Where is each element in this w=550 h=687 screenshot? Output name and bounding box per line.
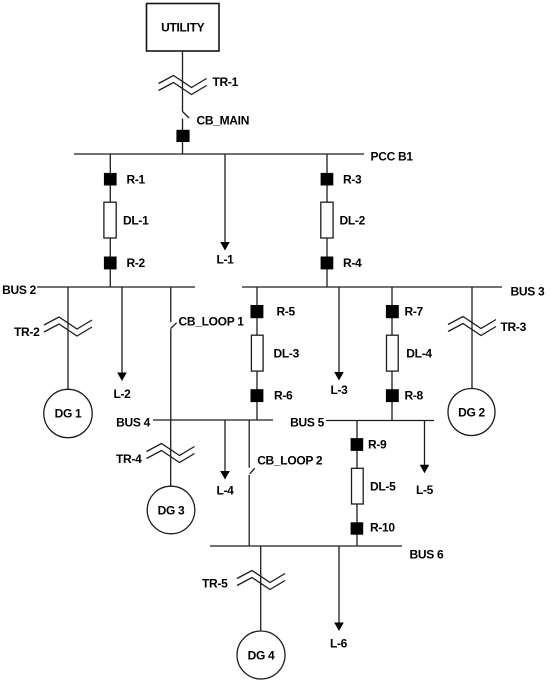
svg-text:DG 1: DG 1 <box>55 407 82 421</box>
svg-text:DG 4: DG 4 <box>248 649 275 663</box>
load L-5 <box>416 421 434 498</box>
svg-text:R-6: R-6 <box>274 389 293 403</box>
wire BUS 4 to DG 3 <box>170 420 172 487</box>
svg-text:R-4: R-4 <box>343 256 362 270</box>
transformer TR-4 <box>116 444 195 467</box>
svg-text:R-1: R-1 <box>127 173 146 187</box>
distribution line DL-1 <box>104 202 149 238</box>
bus BUS 4 <box>116 416 273 430</box>
circuit breaker CB_MAIN <box>176 112 249 155</box>
svg-text:PCC B1: PCC B1 <box>371 150 414 164</box>
svg-text:L-4: L-4 <box>216 484 234 498</box>
bus PCC B1 <box>74 150 413 164</box>
svg-text:TR-3: TR-3 <box>501 320 527 334</box>
svg-text:R-8: R-8 <box>405 389 424 403</box>
bus BUS 3 <box>242 285 545 299</box>
svg-text:L-2: L-2 <box>113 387 131 401</box>
svg-text:DL-1: DL-1 <box>123 214 149 228</box>
svg-text:BUS 3: BUS 3 <box>511 285 545 299</box>
svg-text:R-10: R-10 <box>370 521 395 535</box>
generator DG 2 <box>448 389 495 436</box>
svg-text:L-5: L-5 <box>416 483 434 497</box>
svg-text:BUS 2: BUS 2 <box>2 283 36 297</box>
svg-text:R-9: R-9 <box>368 438 387 452</box>
transformer TR-2 <box>14 317 92 339</box>
wire BUS 3 to BUS 4 (DL-3 feeder) <box>256 287 258 420</box>
relay R-2 <box>104 256 146 270</box>
transformer TR-3 <box>448 317 527 336</box>
svg-text:TR-5: TR-5 <box>202 577 228 591</box>
svg-text:CB_LOOP 2: CB_LOOP 2 <box>257 454 323 468</box>
bus BUS 6 <box>210 546 444 562</box>
svg-text:TR-4: TR-4 <box>116 452 142 466</box>
circuit breaker CB_LOOP 1 <box>171 287 244 420</box>
load L-6 <box>330 546 348 651</box>
svg-text:DL-5: DL-5 <box>370 480 396 494</box>
distribution line DL-5 <box>352 468 397 504</box>
svg-text:R-7: R-7 <box>405 305 424 319</box>
relay R-7 <box>386 305 424 319</box>
load L-2 <box>113 287 131 401</box>
utility box UTILITY <box>147 4 220 52</box>
relay R-1 <box>104 173 146 187</box>
circuit breaker CB_LOOP 2 <box>249 420 323 546</box>
bus BUS 2 <box>2 283 195 297</box>
load L-1 <box>216 154 234 267</box>
svg-text:BUS 5: BUS 5 <box>290 416 324 430</box>
relay R-8 <box>386 389 424 403</box>
relay R-5 <box>251 305 296 319</box>
relay R-3 <box>321 173 362 187</box>
svg-text:DG 3: DG 3 <box>158 504 185 518</box>
svg-text:TR-2: TR-2 <box>14 325 40 339</box>
wire PCC B1 to BUS 3 feeder <box>326 154 328 287</box>
relay R-4 <box>321 256 362 270</box>
svg-text:DL-3: DL-3 <box>274 347 300 361</box>
wire BUS 5 to BUS 6 (DL-5 feeder) <box>356 421 358 547</box>
bus BUS 5 <box>290 416 434 430</box>
svg-text:R-3: R-3 <box>343 173 362 187</box>
svg-text:DG 2: DG 2 <box>458 406 485 420</box>
svg-text:L-1: L-1 <box>216 253 234 267</box>
wire BUS 6 to DG 4 <box>260 546 262 632</box>
distribution line DL-3 <box>251 335 299 371</box>
svg-text:CB_LOOP 1: CB_LOOP 1 <box>179 315 245 329</box>
svg-text:TR-1: TR-1 <box>213 75 239 89</box>
svg-text:R-2: R-2 <box>127 256 146 270</box>
wire BUS 3 to DG 2 <box>471 287 473 389</box>
svg-text:BUS 6: BUS 6 <box>410 548 444 562</box>
relay R-6 <box>251 389 294 403</box>
wire PCC B1 to BUS 2 feeder <box>109 154 111 287</box>
distribution line DL-2 <box>321 202 366 238</box>
load L-3 <box>330 287 348 397</box>
generator DG 4 <box>237 631 285 679</box>
generator DG 1 <box>44 389 92 437</box>
generator DG 3 <box>147 486 195 534</box>
transformer TR-5 <box>202 571 285 591</box>
relay R-10 <box>351 521 396 535</box>
svg-text:DL-4: DL-4 <box>406 347 432 361</box>
svg-text:UTILITY: UTILITY <box>161 20 205 34</box>
transformer TR-1 <box>159 75 239 95</box>
wire utility to TR-1 <box>182 51 184 112</box>
svg-text:CB_MAIN: CB_MAIN <box>197 113 250 127</box>
wire BUS 2 to DG 1 <box>67 287 69 390</box>
relay R-9 <box>351 438 387 452</box>
svg-text:R-5: R-5 <box>277 305 296 319</box>
wire BUS 3 to BUS 5 (DL-4 feeder) <box>391 287 393 421</box>
distribution line DL-4 <box>387 335 433 371</box>
svg-text:DL-2: DL-2 <box>340 214 366 228</box>
svg-text:L-6: L-6 <box>330 637 348 651</box>
load L-4 <box>216 420 234 498</box>
svg-text:L-3: L-3 <box>330 383 348 397</box>
svg-text:BUS 4: BUS 4 <box>116 416 150 430</box>
